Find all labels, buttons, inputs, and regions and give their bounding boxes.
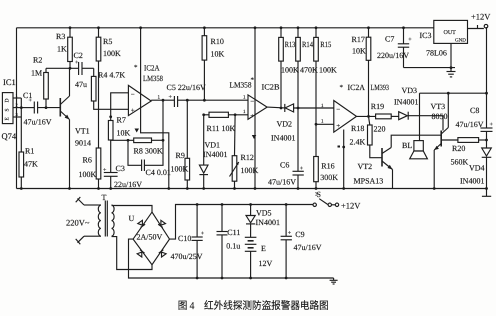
svg-text:C3: C3 [116,164,125,173]
svg-text:VT1: VT1 [75,127,90,136]
wire collector node horizontal [46,67,79,69]
diode bridge arm lower-left [137,250,144,257]
node dots bottom rail [20,187,300,190]
svg-text:1K: 1K [57,45,67,54]
wire IC2B output [267,106,285,109]
svg-text:300K: 300K [320,173,338,182]
svg-text:GND: GND [455,38,466,44]
wire left edge vertical [16,28,18,189]
svg-text:+: + [288,231,292,237]
diode VD1 IN4001 [199,115,227,189]
svg-text:R14: R14 [302,40,313,49]
svg-text:LM358: LM358 [230,81,252,90]
svg-text:R7: R7 [117,116,126,125]
node sensor output [20,106,23,109]
svg-text:2: 2 [16,103,18,108]
wire IC3 output to +12V terminal [468,28,484,30]
svg-text:R12: R12 [241,153,254,162]
svg-text:10K: 10K [211,50,225,59]
capacitor C2 47u [74,51,94,89]
resistor R11 10K [204,112,248,133]
op-amp U IC2B LM358 second stage [230,76,280,120]
wire IC2A inverting input [111,93,129,121]
svg-text:*: * [340,84,344,92]
svg-text:E: E [261,244,266,253]
wire top supply rail [17,27,434,29]
svg-text:C8: C8 [470,106,479,115]
svg-text:VD4: VD4 [469,164,485,173]
svg-text:IN4001: IN4001 [394,98,418,107]
svg-text:VD1: VD1 [205,141,221,150]
capacitor C7 220u/16V [377,26,412,67]
svg-text:R17: R17 [352,35,365,44]
wire LM393 ground pin [343,130,345,189]
svg-text:47K: 47K [24,160,38,169]
resistor R19 220 [371,102,399,134]
svg-text:C4 0.01: C4 0.01 [146,168,171,177]
svg-text:−: − [250,98,254,106]
svg-text:3: 3 [16,112,19,117]
svg-text:IC2A: IC2A [144,64,160,73]
svg-text:U: U [129,214,135,223]
resistor R6 100K [79,148,101,189]
svg-text:R9: R9 [176,151,185,160]
svg-text:1: 1 [158,95,161,101]
svg-text:1: 1 [243,109,246,115]
switch S [313,190,339,207]
node LM393 output [367,115,370,118]
svg-text:8050: 8050 [432,112,448,121]
svg-text:10K: 10K [117,129,131,138]
svg-text:R19: R19 [371,102,384,111]
resistor R14 470K [296,26,318,108]
svg-text:IN4001: IN4001 [256,218,280,227]
wire secondary bottom to bridge [112,237,153,270]
svg-text:R4 4.7K: R4 4.7K [98,71,125,80]
svg-text:*: * [134,64,138,72]
battery E 12V [245,237,273,279]
svg-text:S: S [5,108,11,111]
svg-text:R2: R2 [33,56,42,65]
speaker BL [402,93,427,159]
svg-text:VD3: VD3 [402,86,418,95]
svg-text:+12V: +12V [471,12,491,22]
op-amp U IC2A LM393 comparator [321,83,389,148]
svg-text:1: 1 [321,119,324,125]
svg-text:C2: C2 [74,51,83,60]
svg-text:100K: 100K [171,165,189,174]
wire IC2A power pin vertical [141,28,169,189]
svg-text:*: * [251,76,255,84]
diode VD5 IN4001 [246,203,280,237]
transistor VT1 9014 [60,68,91,188]
svg-text:LM358: LM358 [143,74,163,83]
bridge rectifier U 2A/50V [129,212,170,265]
svg-text:100K: 100K [103,49,121,58]
svg-text:100K: 100K [281,66,299,75]
resistor R7 10K [108,116,130,173]
diode bridge arm upper-right [158,220,165,227]
wire secondary top to bridge [112,206,153,213]
node R2 bottom [45,106,48,109]
resistor R20 560K [441,138,486,167]
diode bridge arm lower-right [159,250,166,257]
node R3 bottom [69,67,72,70]
svg-text:560K: 560K [451,158,469,167]
transformer T [98,193,114,237]
svg-text:R15: R15 [320,40,331,49]
svg-text:R8 300K: R8 300K [134,147,163,156]
capacitor C10 470u/25V [171,203,205,279]
wire IC2A output [151,99,174,101]
svg-text:R16: R16 [321,162,334,171]
wire DC plus rail [170,205,314,240]
node R9 top [186,99,189,102]
svg-text:VD2: VD2 [277,120,293,129]
svg-text:100K: 100K [319,66,337,75]
op-amp U IC2A LM358 first stage [128,64,163,116]
resistor R1 47K [19,147,38,189]
svg-text:C6: C6 [280,161,289,170]
svg-text:+: + [408,37,412,43]
svg-text:0.1u: 0.1u [226,242,240,251]
svg-text:47u/16V: 47u/16V [294,243,322,252]
wire right edge column [486,27,488,128]
capacitor C4 0.01 [128,100,171,177]
svg-text:C1: C1 [23,91,32,100]
svg-text:2A/50V: 2A/50V [137,233,163,242]
svg-text:VD5: VD5 [256,209,272,218]
IC3 regulator 78L06 [420,20,468,57]
svg-text:12V: 12V [259,259,273,268]
svg-text:78L06: 78L06 [426,49,447,58]
resistor R18 2.4K [350,116,383,157]
svg-text:220u/16V: 220u/16V [377,51,409,60]
diode bridge arm upper-left [138,220,145,227]
svg-text:图 4 红外线探测防盗报警器电路图: 图 4 红外线探测防盗报警器电路图 [178,300,329,312]
svg-text:IC1: IC1 [3,77,16,87]
resistor R10 10K [202,26,224,101]
svg-text:VT2: VT2 [358,162,373,171]
ground terminal bottom right [486,189,488,197]
ground symbol IC3 [447,68,456,77]
svg-text:47u/16V: 47u/16V [24,118,52,127]
wire base line C1 to VT1 [21,107,34,109]
svg-text:470K: 470K [300,66,318,75]
svg-text:R11 10K: R11 10K [207,124,236,133]
svg-text:C7: C7 [385,35,394,44]
resistor R16 300K [314,157,339,190]
svg-text:C10: C10 [178,234,191,243]
svg-text:−: − [336,106,340,114]
wire DC minus rail [129,239,334,278]
svg-text:MPSA13: MPSA13 [354,177,384,186]
svg-text:R1: R1 [25,147,34,156]
wire IC3 ground pin [450,43,452,67]
svg-text:BL: BL [402,141,412,150]
svg-text:22u/16V: 22u/16V [114,180,142,189]
diode VD3 IN4001 [394,86,443,131]
svg-text:220: 220 [374,125,386,134]
wire LM393 output [357,115,376,117]
svg-text:OUT: OUT [444,30,457,36]
mains terminal bottom prong [76,236,99,244]
diode VD2 IN4001 [271,104,334,143]
resistor R8 300K [134,138,164,156]
svg-text:−: − [131,91,135,99]
resistor R13 100K [279,26,299,108]
transistor VT2 MPSA13 [354,135,442,188]
svg-text:1: 1 [243,95,246,101]
svg-text:R3: R3 [56,32,65,41]
transistor VT3 8050 [431,92,450,190]
svg-text:R10: R10 [211,37,224,46]
capacitor C9 47u/16V [281,203,322,279]
svg-text:R18: R18 [351,124,364,133]
svg-text:C5 22u/16V: C5 22u/16V [167,83,207,92]
resistor R4 4.7K [91,68,128,109]
svg-text:IN4001: IN4001 [203,150,227,159]
resistor R17 10K pull-up [352,26,371,116]
node R8 right [162,139,165,142]
svg-text:+: + [131,107,135,115]
capacitor C5 22u/16V [167,83,249,107]
svg-text:470u/25V: 470u/25V [171,252,203,261]
node R13 bottom [280,107,283,110]
svg-text:220V~: 220V~ [66,218,90,228]
resistor R5 100K [96,26,121,148]
svg-text:LM393: LM393 [371,83,390,92]
resistor R15 100K [314,26,337,156]
svg-text:47u/16V: 47u/16V [456,120,484,129]
svg-text:9014: 9014 [75,139,91,148]
wire IC2B power vertical [254,28,256,189]
ground symbol PSU [330,278,338,284]
svg-text:+12V: +12V [341,201,361,211]
svg-text:1M: 1M [31,69,42,78]
svg-text:C11: C11 [227,228,240,237]
svg-text:D: D [5,99,11,103]
capacitor C6 47u/16V [268,108,304,189]
svg-text:47u: 47u [75,80,87,89]
resistor R2 1M [31,56,48,108]
svg-text:100K: 100K [241,166,259,175]
svg-text:+: + [490,122,494,128]
svg-text:+: + [336,122,340,130]
svg-text:IC3: IC3 [420,31,432,40]
terminal +12V top right [484,24,488,28]
resistor R3 1K [56,26,72,68]
capacitor C11 0.1u [217,203,241,279]
IC1 pyroelectric sensor Q74 [2,77,22,141]
node VD1 top [202,113,205,116]
svg-text:IC2A: IC2A [348,83,366,92]
capacitor C3 22u/16V [103,164,142,189]
wire plus input stub [316,123,334,125]
svg-text:100K: 100K [79,170,97,179]
svg-text:R20: R20 [452,144,465,153]
svg-text:R5: R5 [103,37,112,46]
diode VD4 IN4001 [460,148,491,186]
node R12 top [234,113,237,116]
node C4 left [127,139,130,142]
svg-text:IC2B: IC2B [262,83,280,92]
wire +12 feed horizontal [420,92,487,94]
svg-text:C9: C9 [295,230,304,239]
potentiometer R12 100K [230,115,259,189]
capacitor C8 47u/16V [456,106,494,131]
node IC2A output [162,99,165,102]
svg-text:IN4001: IN4001 [460,177,484,186]
resistor R9 100K [171,100,190,188]
mains terminal top prong [76,197,99,205]
svg-text:+: + [300,166,304,172]
svg-text:+: + [201,231,205,237]
svg-text:2.4K: 2.4K [350,138,366,147]
svg-text:1: 1 [16,93,18,98]
node R7 top [109,115,112,118]
svg-text:47u/16V: 47u/16V [268,178,296,187]
svg-text:R6: R6 [83,156,92,165]
capacitor C1 47u/16V [23,91,52,127]
svg-text:+: + [169,95,173,101]
wire bottom ground rail [17,188,487,190]
node comparator plus input [315,123,318,126]
wire R7 to R8 branch [111,139,134,141]
wire sensor column [20,98,22,152]
svg-text:R13: R13 [285,40,296,49]
svg-text:+: + [250,112,254,120]
node R14 bottom [297,107,300,110]
svg-text:Q74: Q74 [2,131,17,141]
svg-text:IN4001: IN4001 [271,134,295,143]
svg-text:10K: 10K [352,47,366,56]
svg-text:VT3: VT3 [431,102,446,111]
